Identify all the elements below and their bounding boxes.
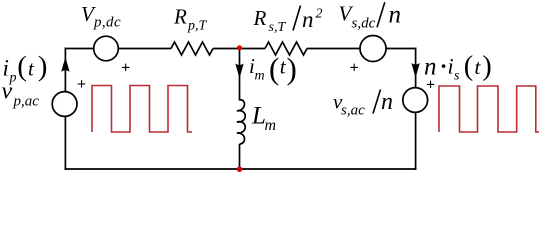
wire: top-left horizontal segment [65, 48, 94, 50]
wire: middle vertical from top junction to inductor [239, 49, 241, 101]
wire: top between V_p,dc and R_p,T [118, 48, 171, 50]
label v_s,ac/n [333, 89, 393, 119]
current source v_p,ac (circle) [52, 92, 77, 117]
resistor R_p,T (zigzag) [171, 42, 213, 55]
svg-text:n2: n2 [302, 7, 323, 33]
wire: right vertical lower segment [415, 112, 417, 169]
arrow up on left wire (i_p direction) [61, 57, 69, 72]
wire: right vertical upper segment [415, 48, 417, 88]
wire: top between R_p,T and R_s,T/n^2 [213, 48, 265, 50]
square wave v_s,ac (red) [439, 86, 539, 132]
inductor L_m (coil) [237, 100, 245, 144]
svg-text:vs,ac: vs,ac [333, 90, 365, 119]
wire: middle vertical from inductor to bottom junction [239, 144, 241, 169]
arrow down on right wire (n·i_s direction) [411, 63, 419, 78]
resistor R_s,T/n^2 (zigzag) [265, 42, 307, 55]
arrow down on middle wire (i_m direction) [235, 64, 243, 79]
wire: top-right horizontal segment [386, 48, 416, 50]
svg-text:+: + [121, 59, 130, 76]
wire: left vertical lower segment [64, 116, 66, 169]
voltage source V_s,dc/n (circle) [360, 36, 386, 62]
svg-text:im(t): im(t) [249, 51, 297, 86]
svg-text:+: + [350, 59, 359, 76]
wire: left vertical upper segment [64, 48, 66, 92]
square wave v_p,ac (red) [92, 86, 192, 133]
svg-text:Lm: Lm [251, 103, 276, 135]
wire: bottom horizontal [65, 168, 417, 170]
voltage source V_p,dc (circle) [94, 36, 119, 61]
label R_s,T/n^2 [253, 6, 323, 36]
node: bottom junction dot [237, 166, 243, 172]
svg-text:n: n [389, 1, 402, 28]
svg-text:+: + [77, 76, 86, 93]
node: top junction dot [237, 45, 242, 50]
svg-text:vp,ac: vp,ac [2, 79, 40, 110]
svg-text:Rp,T: Rp,T [173, 5, 208, 34]
svg-text:Vp,dc: Vp,dc [81, 2, 121, 31]
svg-text:Rs,T: Rs,T [253, 6, 287, 35]
svg-text:Vs,dc: Vs,dc [339, 2, 376, 32]
svg-text:n·is(t): n·is(t) [424, 51, 492, 83]
wire: top between R_s,T/n^2 and V_s,dc/n [307, 48, 360, 50]
current source v_s,ac/n (circle) [403, 88, 428, 113]
svg-text:n: n [381, 89, 393, 115]
label V_s,dc/n [339, 1, 402, 31]
